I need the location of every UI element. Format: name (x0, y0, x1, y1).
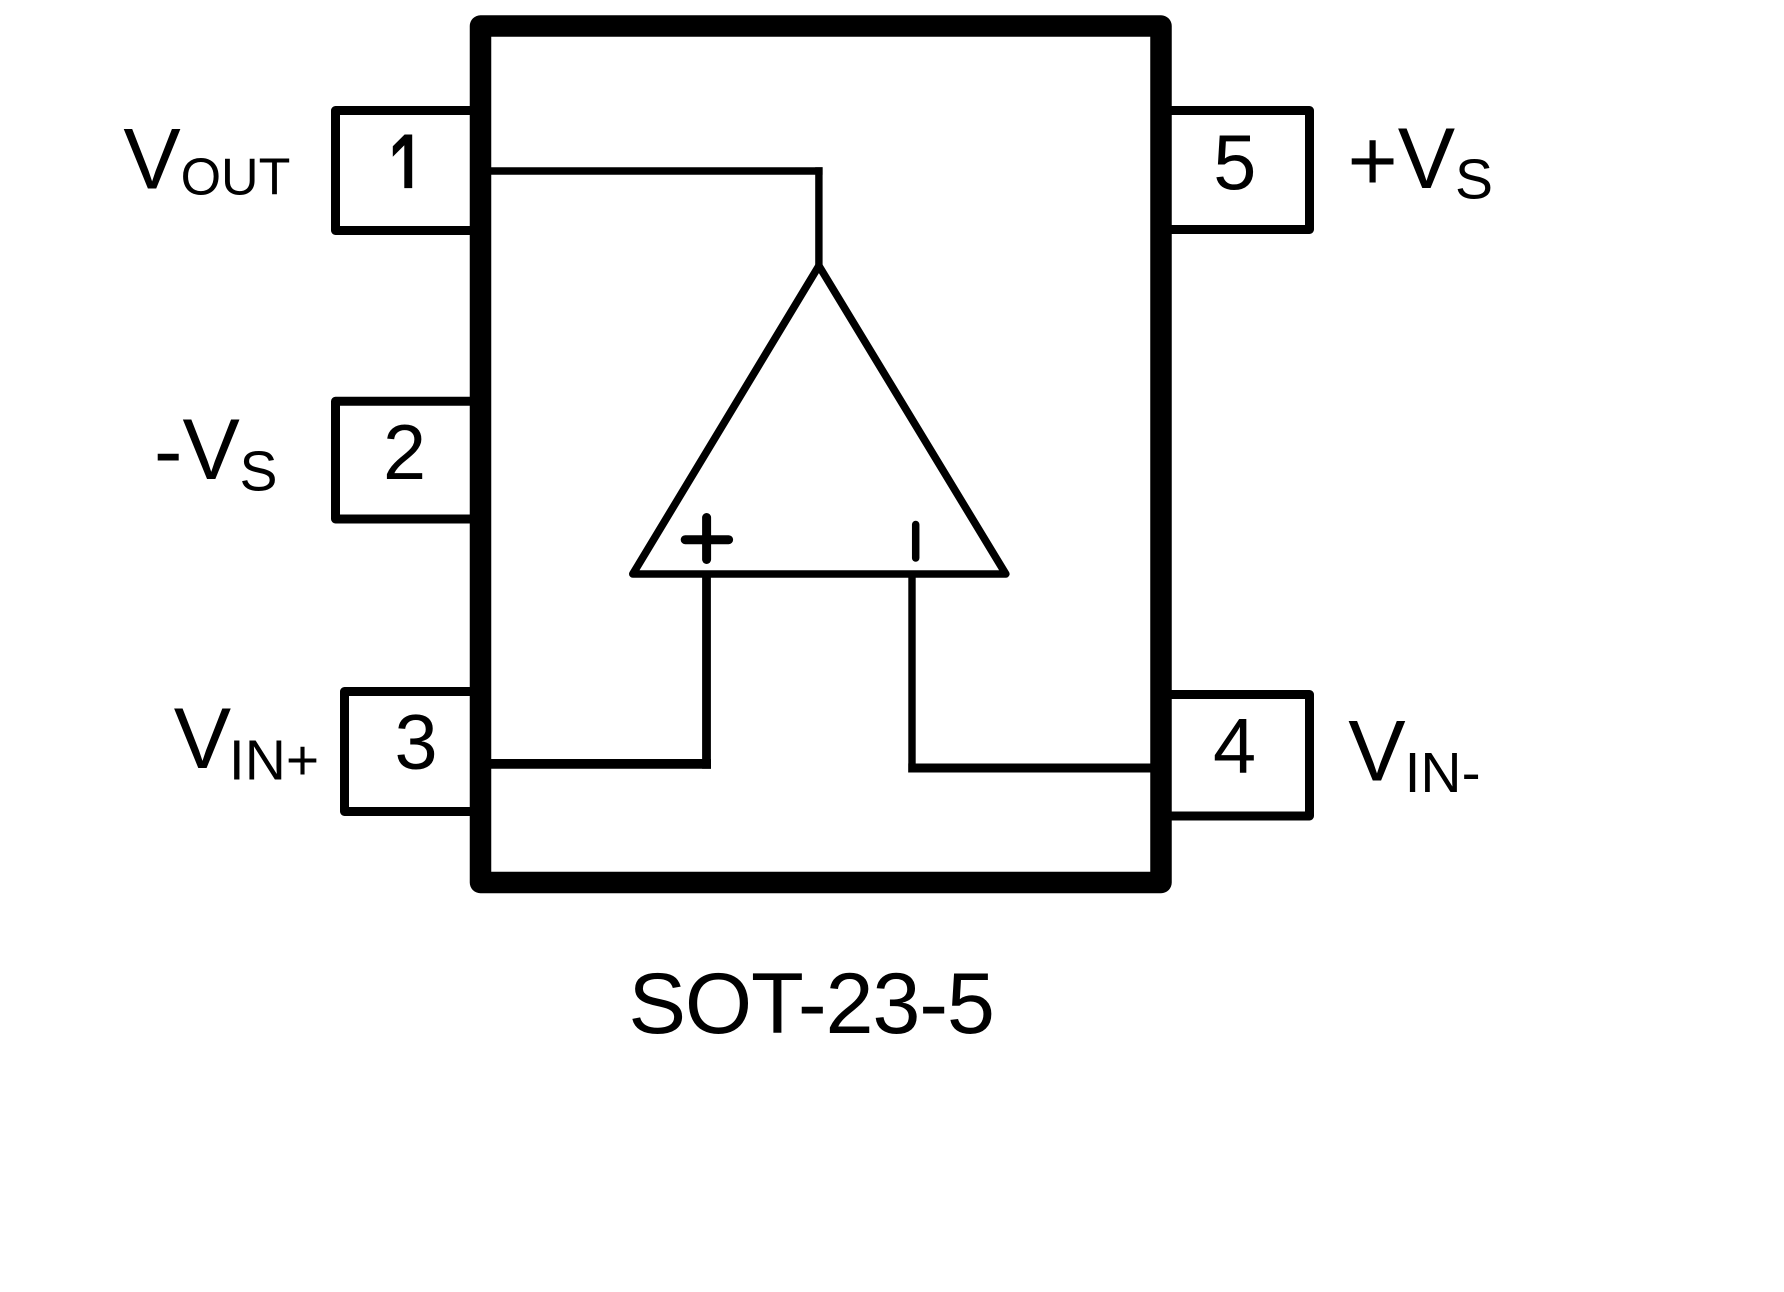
pin 5 pad box (1159, 111, 1310, 230)
wire pin4 to op-amp inverting input (908, 575, 1157, 773)
op-amp inverting input minus marker (912, 525, 920, 559)
pin number 4 (1213, 704, 1256, 790)
pin 3 pad box (345, 692, 482, 812)
label VIN+ pin 3 (174, 691, 319, 793)
wire pin3 to op-amp non-inverting input (485, 575, 711, 769)
op-amp triangle A1 (633, 266, 1006, 574)
pin 2 pad box (336, 401, 482, 519)
svg-text:SOT-23-5: SOT-23-5 (628, 956, 993, 1052)
label +VS pin 5 (1348, 111, 1494, 211)
pin number 2 (383, 410, 426, 496)
svg-text:V: V (1348, 703, 1405, 799)
pin number 3 (394, 700, 437, 786)
pin number 5 (1213, 120, 1256, 206)
svg-text:V: V (1398, 111, 1455, 207)
label VOUT pin 1 (123, 111, 290, 207)
svg-text:OUT: OUT (181, 149, 291, 207)
pin 4 pad box (1159, 695, 1310, 817)
svg-text:IN+: IN+ (229, 729, 319, 793)
svg-text:S: S (1455, 148, 1493, 212)
label -VS pin 2 (154, 402, 278, 504)
label VIN- pin 4 (1348, 703, 1480, 805)
svg-text:V: V (183, 402, 240, 498)
svg-text:V: V (123, 111, 180, 207)
caption SOT-23-5 (628, 956, 993, 1052)
svg-text:IN-: IN- (1405, 741, 1481, 805)
wire pin1 to op-amp output (485, 167, 823, 266)
pin number 1 (393, 135, 412, 189)
svg-text:-: - (154, 403, 183, 499)
svg-text:5: 5 (1213, 120, 1256, 206)
svg-text:+: + (1348, 113, 1398, 209)
svg-text:2: 2 (383, 410, 426, 496)
svg-text:S: S (240, 440, 278, 504)
pin 1 pad box (336, 111, 482, 231)
svg-text:4: 4 (1213, 704, 1256, 790)
op-amp non-inverting input plus marker (685, 518, 728, 560)
svg-text:3: 3 (394, 700, 437, 786)
SOT-23-5 package outline U1 (481, 26, 1162, 883)
svg-text:V: V (174, 691, 231, 787)
